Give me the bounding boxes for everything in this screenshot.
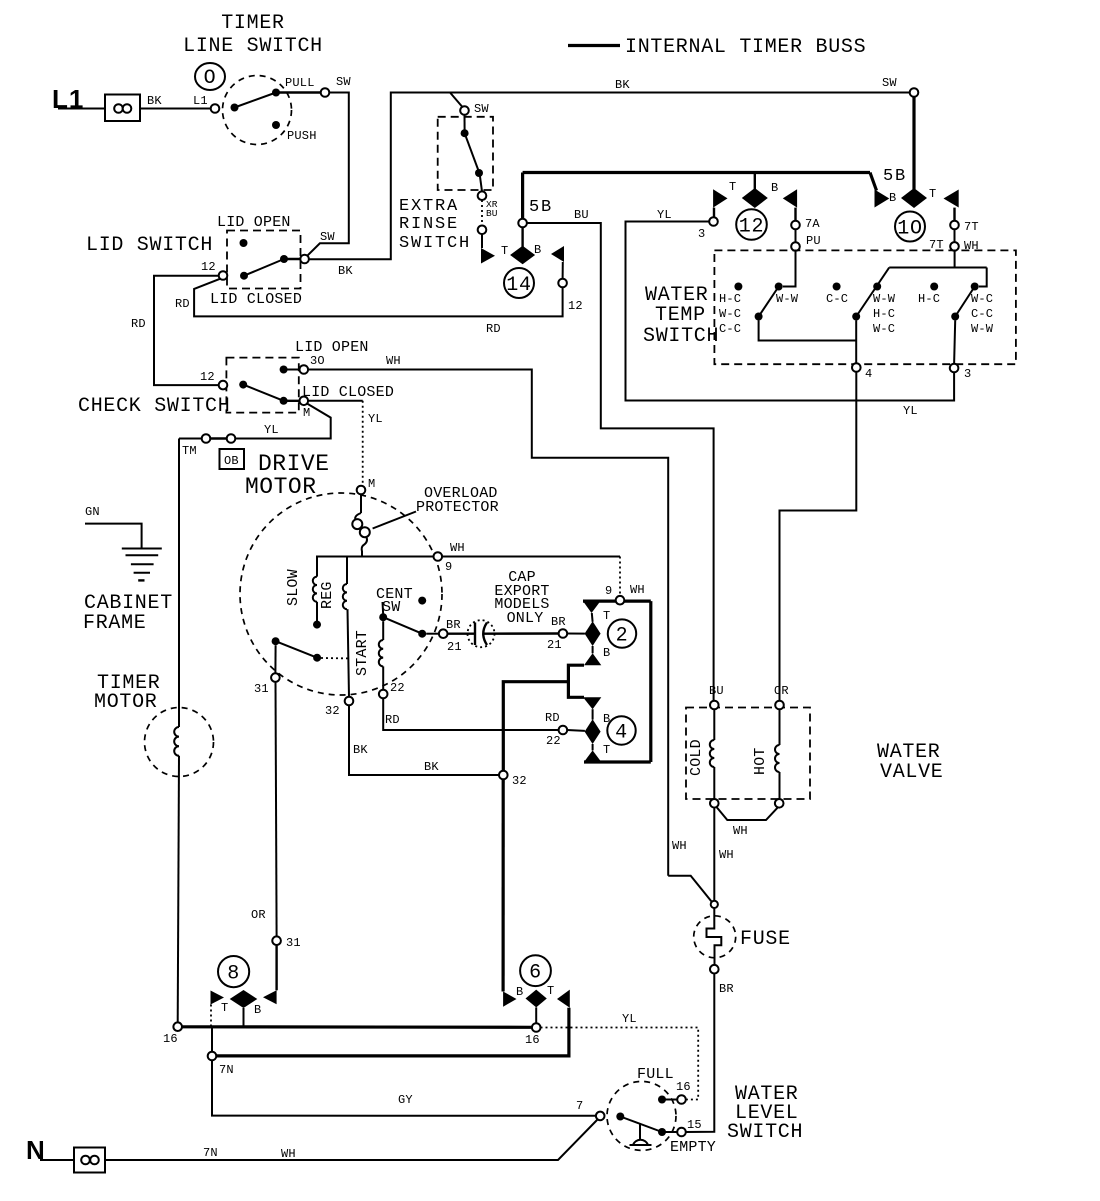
ground cabinet frame bbox=[85, 505, 162, 580]
svg-text:9: 9 bbox=[605, 584, 612, 598]
svg-text:W-W: W-W bbox=[971, 322, 994, 336]
svg-text:LINE SWITCH: LINE SWITCH bbox=[183, 35, 323, 58]
wire YL from M to drive motor bbox=[308, 401, 383, 486]
svg-text:LID CLOSED: LID CLOSED bbox=[210, 291, 302, 308]
svg-text:YL: YL bbox=[622, 1012, 637, 1026]
wire OR terminal 4 to water valve bbox=[780, 372, 857, 701]
timer cam symbol 0 bbox=[195, 63, 225, 90]
timer motor bbox=[145, 708, 214, 1023]
label EXTRA RINSE SWITCH bbox=[399, 197, 471, 253]
svg-text:16: 16 bbox=[163, 1032, 178, 1046]
svg-text:PULL: PULL bbox=[285, 76, 315, 90]
svg-text:SWITCH: SWITCH bbox=[399, 234, 471, 253]
terminal 12 (cam 14) bbox=[558, 262, 583, 313]
terminal 9 WH (motor) bbox=[434, 552, 443, 561]
svg-text:RD: RD bbox=[131, 317, 146, 331]
wire to 7N bbox=[211, 1027, 213, 1052]
svg-text:START: START bbox=[354, 630, 371, 676]
svg-text:C-C: C-C bbox=[719, 322, 741, 336]
svg-text:PUSH: PUSH bbox=[287, 129, 317, 143]
wire OR to cam 8 bbox=[251, 682, 277, 937]
svg-text:BR: BR bbox=[719, 982, 734, 996]
svg-text:W-W: W-W bbox=[873, 292, 896, 306]
terminal BR (fuse) bbox=[710, 965, 734, 996]
terminal 31 (motor) bbox=[254, 645, 280, 696]
label CAP EXPORT MODELS ONLY bbox=[494, 569, 549, 627]
svg-text:T: T bbox=[221, 1001, 228, 1015]
drive motor dashed circle bbox=[240, 493, 442, 695]
svg-text:W-W: W-W bbox=[776, 292, 799, 306]
terminal WH right (valve) bbox=[775, 799, 784, 808]
svg-text:21: 21 bbox=[547, 638, 562, 652]
svg-text:SLOW: SLOW bbox=[285, 569, 302, 606]
svg-text:W-C: W-C bbox=[719, 307, 741, 321]
wire buss cam2/4 right bracket bbox=[583, 601, 651, 762]
svg-text:RD: RD bbox=[175, 297, 190, 311]
terminal 32 (junction) bbox=[499, 771, 527, 788]
solenoid COLD bbox=[688, 709, 714, 799]
svg-text:COLD: COLD bbox=[688, 739, 705, 776]
wire BK bus top bbox=[309, 76, 914, 278]
terminal 16 left bbox=[163, 1022, 182, 1046]
svg-text:SWITCH: SWITCH bbox=[643, 325, 719, 348]
terminal 3 (water temp) bbox=[950, 321, 972, 382]
svg-text:14: 14 bbox=[506, 274, 531, 297]
wire M to TM plug bbox=[235, 404, 331, 439]
svg-text:SW: SW bbox=[882, 76, 897, 90]
disconnect plug TM bbox=[182, 434, 235, 458]
svg-text:16: 16 bbox=[525, 1033, 540, 1047]
svg-text:PROTECTOR: PROTECTOR bbox=[416, 499, 499, 516]
fuse junction bbox=[711, 901, 718, 908]
timer cam 2 bbox=[583, 601, 636, 660]
temp switch pole 2 bbox=[826, 268, 896, 337]
svg-text:H-C: H-C bbox=[918, 292, 940, 306]
svg-text:M: M bbox=[368, 477, 375, 491]
svg-text:7T: 7T bbox=[964, 220, 979, 234]
label WATER VALVE bbox=[877, 741, 944, 784]
timer cam 6 bbox=[503, 955, 570, 1023]
svg-text:FRAME: FRAME bbox=[83, 612, 147, 635]
pendulum weight bbox=[630, 1123, 652, 1145]
terminal 4 (water temp) bbox=[852, 321, 872, 382]
svg-text:REG: REG bbox=[319, 581, 336, 609]
label 0B boxed bbox=[220, 449, 245, 469]
svg-text:RD: RD bbox=[486, 322, 501, 336]
svg-text:L1: L1 bbox=[193, 94, 208, 108]
svg-text:1O: 1O bbox=[897, 218, 922, 241]
terminal 22 (cam 4) bbox=[559, 726, 568, 735]
wire L1 lead bbox=[58, 108, 106, 110]
terminal 7N bbox=[208, 1052, 234, 1077]
svg-text:3: 3 bbox=[964, 367, 971, 381]
svg-text:BR: BR bbox=[446, 618, 461, 632]
svg-text:12: 12 bbox=[201, 260, 216, 274]
check switch dashed box bbox=[226, 358, 298, 413]
terminal 15 EMPTY bbox=[664, 1118, 716, 1156]
svg-text:B: B bbox=[889, 191, 896, 205]
lever check switch bbox=[239, 381, 300, 405]
wire RD to check switch bbox=[131, 276, 219, 385]
svg-text:LID CLOSED: LID CLOSED bbox=[302, 384, 394, 401]
svg-text:8: 8 bbox=[227, 963, 240, 986]
timer cam 14 bbox=[481, 227, 564, 298]
timer line switch dashed circle bbox=[223, 76, 292, 145]
svg-text:TIMER: TIMER bbox=[221, 12, 285, 35]
svg-text:FULL: FULL bbox=[637, 1066, 674, 1083]
svg-text:2: 2 bbox=[616, 625, 629, 648]
svg-text:SW: SW bbox=[474, 102, 489, 116]
svg-text:W-C: W-C bbox=[971, 292, 993, 306]
contact lid open (lid switch) bbox=[240, 239, 248, 247]
wire WH join from check switch bbox=[668, 876, 711, 902]
svg-text:SW: SW bbox=[336, 75, 351, 89]
svg-text:12: 12 bbox=[568, 299, 583, 313]
lever extra rinse switch bbox=[461, 115, 483, 192]
svg-text:21: 21 bbox=[447, 640, 462, 654]
svg-text:EMPTY: EMPTY bbox=[670, 1139, 716, 1156]
winding SLOW bbox=[285, 569, 321, 628]
svg-text:BK: BK bbox=[147, 94, 162, 108]
terminal 22 (motor) bbox=[379, 681, 405, 698]
timer cam 4 bbox=[584, 709, 636, 762]
svg-text:YL: YL bbox=[368, 412, 383, 426]
svg-text:TEMP: TEMP bbox=[655, 304, 706, 327]
svg-text:T: T bbox=[547, 984, 554, 998]
svg-text:WH: WH bbox=[672, 839, 687, 853]
bracket between cam 2 and cam 4 bbox=[568, 646, 601, 709]
svg-text:5B: 5B bbox=[529, 198, 553, 217]
svg-text:GN: GN bbox=[85, 505, 100, 519]
wire buss 5B bbox=[523, 167, 907, 219]
svg-text:C-C: C-C bbox=[971, 307, 993, 321]
switch lever pull/push bbox=[231, 89, 281, 112]
svg-text:7N: 7N bbox=[219, 1063, 234, 1077]
label TIMER LINE SWITCH bbox=[183, 12, 323, 58]
temp switch pole 3 bbox=[918, 283, 994, 337]
svg-text:12: 12 bbox=[200, 370, 215, 384]
svg-text:31: 31 bbox=[254, 682, 269, 696]
wire TM down to timer motor bbox=[179, 438, 202, 440]
label TIMER MOTOR bbox=[94, 672, 161, 714]
svg-text:WH: WH bbox=[733, 824, 748, 838]
svg-text:OB: OB bbox=[224, 454, 239, 468]
svg-text:MOTOR: MOTOR bbox=[245, 474, 317, 500]
lever water level switch bbox=[616, 1113, 666, 1137]
lid switch dashed box bbox=[227, 231, 301, 289]
wire buss SW to cam 10 bbox=[912, 97, 915, 189]
svg-text:B: B bbox=[516, 985, 523, 999]
wire N lead bbox=[40, 1159, 75, 1161]
terminal 12 (check switch) bbox=[200, 370, 227, 389]
svg-text:T: T bbox=[929, 187, 936, 201]
wire WH 7N to water level switch bbox=[105, 1120, 598, 1162]
capacitor C bbox=[448, 620, 559, 647]
svg-text:BK: BK bbox=[353, 743, 368, 757]
contact PUSH bbox=[272, 121, 280, 129]
terminal 12 (lid switch) bbox=[201, 260, 227, 280]
svg-text:GY: GY bbox=[398, 1093, 413, 1107]
extra rinse switch dashed box bbox=[438, 117, 493, 190]
contact FULL bbox=[637, 1066, 691, 1104]
svg-text:T: T bbox=[729, 180, 736, 194]
terminal 5B (cam 14) bbox=[518, 219, 527, 228]
water level switch dashed circle bbox=[607, 1081, 676, 1150]
svg-text:T: T bbox=[603, 743, 610, 757]
water valve dashed box bbox=[686, 708, 810, 800]
wire buss 32 down to cam 6 bbox=[502, 779, 505, 991]
svg-text:WH: WH bbox=[386, 354, 401, 368]
terminal 9 WH (cam 2) bbox=[605, 583, 645, 605]
svg-text:YL: YL bbox=[903, 404, 918, 418]
svg-text:12: 12 bbox=[739, 216, 764, 239]
water temp switch dashed box bbox=[714, 250, 1016, 364]
terminal 31 lower bbox=[272, 936, 301, 990]
terminal SW (lid switch) bbox=[300, 255, 309, 264]
svg-text:CHECK SWITCH: CHECK SWITCH bbox=[78, 395, 230, 418]
timer cam 10 bbox=[875, 187, 959, 242]
svg-text:BK: BK bbox=[338, 264, 353, 278]
terminal WH left (valve) bbox=[710, 799, 719, 808]
fuse F bbox=[694, 908, 791, 965]
wire into cam 14 T bbox=[481, 234, 483, 248]
terminal 7 bbox=[576, 1099, 605, 1120]
svg-text:22: 22 bbox=[546, 734, 561, 748]
terminal SW of timer line switch bbox=[321, 88, 330, 97]
svg-text:6: 6 bbox=[529, 962, 542, 985]
svg-text:WH: WH bbox=[281, 1147, 296, 1161]
svg-text:BR: BR bbox=[551, 615, 566, 629]
winding REG bbox=[319, 557, 349, 698]
wire 7T into switch bbox=[889, 251, 954, 268]
solenoid HOT bbox=[752, 709, 780, 799]
wire SW down to lid switch bbox=[307, 93, 349, 257]
label OVERLOAD PROTECTOR bbox=[373, 485, 499, 529]
wire buss 16 bbox=[182, 1025, 532, 1029]
timer cam 12 bbox=[713, 174, 797, 240]
svg-text:RINSE: RINSE bbox=[399, 215, 459, 234]
wire tap from BK bus bbox=[450, 93, 462, 107]
svg-text:32: 32 bbox=[325, 704, 340, 718]
terminal SW right bbox=[910, 88, 919, 97]
wire BU from cam 14 to water valve bbox=[527, 208, 714, 701]
svg-text:32: 32 bbox=[512, 774, 527, 788]
terminal BU (valve) bbox=[709, 684, 724, 709]
speed lever bbox=[272, 637, 349, 662]
terminal L1 of timer line switch bbox=[211, 104, 220, 113]
svg-text:B: B bbox=[254, 1003, 261, 1017]
svg-text:ONLY: ONLY bbox=[507, 610, 544, 627]
legend internal timer buss bbox=[568, 36, 866, 59]
terminal OR (valve) bbox=[774, 684, 789, 709]
wire BK to timer line switch bbox=[140, 94, 211, 109]
svg-text:9: 9 bbox=[445, 560, 452, 574]
svg-text:3O: 3O bbox=[310, 354, 325, 368]
lever lid switch bbox=[240, 255, 301, 280]
svg-text:LID OPEN: LID OPEN bbox=[217, 214, 291, 231]
terminal 3 (cam 12) bbox=[698, 208, 718, 241]
contact PULL bbox=[276, 91, 321, 93]
svg-text:EXTRA: EXTRA bbox=[399, 197, 459, 216]
svg-text:B: B bbox=[603, 646, 610, 660]
wire RD 22 to cam 4 bbox=[383, 698, 561, 748]
svg-text:YL: YL bbox=[657, 208, 672, 222]
terminal M (check switch) bbox=[300, 397, 311, 421]
svg-text:SW: SW bbox=[320, 230, 335, 244]
wire YL cam 6 to water level switch bbox=[541, 1012, 699, 1100]
contact 30 lid open bbox=[280, 354, 325, 374]
label DRIVE MOTOR bbox=[245, 451, 330, 500]
svg-text:RD: RD bbox=[385, 713, 400, 727]
svg-text:LID OPEN: LID OPEN bbox=[295, 339, 369, 356]
svg-text:16: 16 bbox=[676, 1080, 691, 1094]
terminal XR BU (extra rinse) bbox=[478, 191, 498, 234]
label CABINET FRAME bbox=[83, 592, 173, 635]
svg-text:T: T bbox=[501, 244, 508, 258]
wire YL cam12 to water temp 3 bbox=[626, 208, 955, 418]
terminal 7T WH (cam 10) bbox=[929, 208, 979, 253]
svg-text:BK: BK bbox=[615, 78, 630, 92]
svg-text:BK: BK bbox=[424, 760, 439, 774]
svg-text:7N: 7N bbox=[203, 1146, 218, 1160]
terminal SW (extra rinse) bbox=[460, 102, 489, 116]
svg-text:SWITCH: SWITCH bbox=[727, 1121, 803, 1144]
svg-text:OR: OR bbox=[251, 908, 266, 922]
temp switch pole 1 bbox=[719, 283, 799, 337]
label WATER LEVEL SWITCH bbox=[727, 1083, 803, 1144]
svg-text:31: 31 bbox=[286, 936, 301, 950]
svg-text:RD: RD bbox=[545, 711, 560, 725]
wire BK 32 to cam 6 bbox=[349, 705, 499, 775]
terminal 21 (cam 2) bbox=[547, 615, 585, 652]
winding START bbox=[354, 621, 383, 690]
wire WH valve to fuse bbox=[672, 808, 734, 901]
connector plug L1 bbox=[105, 95, 140, 122]
svg-text:4: 4 bbox=[865, 367, 872, 381]
svg-text:15: 15 bbox=[687, 1118, 702, 1132]
svg-text:FUSE: FUSE bbox=[740, 928, 791, 951]
svg-text:22: 22 bbox=[390, 681, 405, 695]
svg-text:OR: OR bbox=[774, 684, 789, 698]
svg-text:TM: TM bbox=[182, 444, 197, 458]
timer cam 8 bbox=[211, 956, 277, 1027]
svg-text:WH: WH bbox=[450, 541, 465, 555]
svg-text:BU: BU bbox=[486, 208, 498, 219]
terminal 16 (cam 6) bbox=[525, 1023, 541, 1047]
svg-text:5B: 5B bbox=[883, 167, 907, 186]
wire RD to cam 14 bbox=[175, 279, 563, 336]
svg-text:W-C: W-C bbox=[873, 322, 895, 336]
connector plug N bbox=[74, 1148, 105, 1173]
svg-text:H-C: H-C bbox=[719, 292, 741, 306]
wire buss 32 up to cams 2 4 bracket bbox=[503, 682, 568, 771]
svg-text:B: B bbox=[771, 181, 778, 195]
svg-text:T: T bbox=[603, 609, 610, 623]
svg-text:O: O bbox=[204, 67, 217, 90]
wire pole1 to terminal 4 bbox=[759, 321, 857, 341]
svg-text:BU: BU bbox=[574, 208, 589, 222]
svg-text:C-C: C-C bbox=[826, 292, 848, 306]
overload protector bbox=[352, 494, 370, 556]
svg-text:SW: SW bbox=[382, 599, 400, 616]
wire WH bus inside motor bbox=[317, 541, 620, 596]
svg-text:B: B bbox=[534, 243, 541, 257]
label WATER TEMP SWITCH bbox=[643, 284, 719, 348]
terminal M (drive motor) bbox=[357, 477, 376, 494]
svg-text:VALVE: VALVE bbox=[880, 761, 944, 784]
svg-text:YL: YL bbox=[264, 423, 279, 437]
svg-text:INTERNAL TIMER BUSS: INTERNAL TIMER BUSS bbox=[625, 36, 866, 59]
wire PU into switch bbox=[783, 251, 796, 287]
svg-text:BU: BU bbox=[709, 684, 724, 698]
svg-text:LID SWITCH: LID SWITCH bbox=[86, 234, 213, 257]
svg-text:WH: WH bbox=[630, 583, 645, 597]
terminal 32 (motor) bbox=[325, 697, 353, 718]
wire WH link under valve bbox=[717, 807, 779, 838]
svg-text:7A: 7A bbox=[805, 217, 820, 231]
wire WH from 30 to fuse bbox=[308, 354, 668, 876]
svg-text:PU: PU bbox=[806, 234, 821, 248]
svg-text:3: 3 bbox=[698, 227, 705, 241]
wire buss 7N to cam 6 bbox=[216, 1008, 569, 1056]
svg-text:7: 7 bbox=[576, 1099, 583, 1113]
centrifugal switch CENT SW bbox=[376, 586, 439, 638]
svg-text:4: 4 bbox=[615, 722, 628, 745]
svg-text:WH: WH bbox=[719, 848, 734, 862]
svg-text:MOTOR: MOTOR bbox=[94, 691, 158, 714]
terminal 7A PU (cam 12) bbox=[791, 208, 821, 251]
svg-text:HOT: HOT bbox=[752, 747, 769, 775]
wire BR fuse to water level switch bbox=[686, 974, 715, 1133]
wire GY to water level switch bbox=[212, 1060, 596, 1116]
terminal 21 (motor BR) bbox=[439, 618, 462, 654]
svg-text:H-C: H-C bbox=[873, 307, 895, 321]
svg-text:M: M bbox=[303, 406, 310, 420]
